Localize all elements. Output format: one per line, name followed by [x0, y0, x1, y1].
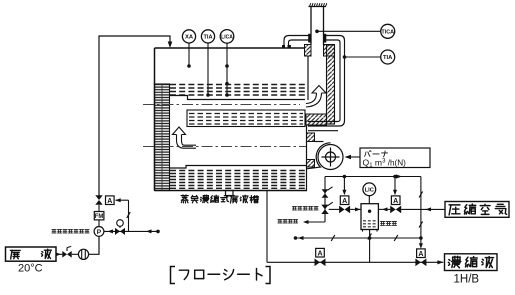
svg-text:20°C: 20°C	[18, 263, 43, 275]
svg-text:FM: FM	[95, 214, 104, 220]
evaporative concentration waste-liquid tank: outer shell	[155, 47, 305, 49]
pump suction piping	[89, 236, 99, 254]
pipe base flanges on roof	[282, 45, 285, 48]
control valve right	[390, 206, 401, 214]
svg-text:1H/B: 1H/B	[454, 274, 480, 286]
node: stack temperature tap	[315, 30, 319, 34]
XA sensor line	[188, 43, 190, 66]
blower / forced draft fan	[307, 142, 344, 170]
pump discharge branch line	[104, 230, 158, 232]
waste liquid supply pump P	[94, 227, 104, 237]
TIA sensor line	[207, 43, 209, 95]
to exhaust arrow	[304, 221, 325, 223]
flow arrow (middle pass turnaround, outlined)	[173, 127, 197, 148]
tank name label (JP strokes)	[181, 195, 258, 203]
tank left refractory wall (brick hatch)	[155, 84, 170, 191]
control valve left	[339, 206, 350, 214]
roof block right of stack	[324, 45, 335, 57]
compressed air box	[445, 202, 509, 218]
valve (lower, w/ lever)	[321, 205, 328, 214]
flange block upper (blower inlet)	[307, 133, 315, 142]
drain nozzle	[226, 191, 234, 196]
valve (upper, w/ lever)	[322, 189, 329, 197]
node: capped branch end	[156, 230, 160, 234]
svg-text:P: P	[97, 229, 102, 236]
strainer	[78, 249, 88, 259]
burner label box	[360, 148, 430, 168]
feed air line through pressure feeder	[329, 208, 340, 210]
instrument LICA	[220, 30, 234, 44]
pipe flange marks on stack	[308, 34, 311, 43]
hand valve (suction)	[62, 251, 71, 258]
pump name (tiny JP)	[52, 230, 89, 234]
roof block left of stack	[305, 45, 312, 57]
inlet arrows from waste box	[57, 253, 63, 255]
signal arrow into A	[116, 199, 129, 201]
steam takeoff vertical	[324, 177, 326, 223]
baffle block under stack duct	[306, 114, 327, 125]
tank liquid level dashes (top band)	[170, 85, 306, 96]
flow meter FM	[94, 212, 104, 220]
stack duct inner left wall	[307, 56, 309, 100]
flow arrow (up into stack, outlined)	[306, 86, 326, 108]
exhaust label (tiny JP)	[278, 219, 298, 222]
feed pipe to tank top	[99, 36, 170, 196]
tank bottom liquid dashes	[170, 171, 306, 189]
signal line to TIA	[345, 56, 381, 58]
svg-text:A: A	[393, 198, 398, 205]
tank right end wall lower	[306, 125, 308, 191]
instrument XA	[182, 30, 195, 43]
lateral line w/ end node	[294, 236, 298, 240]
concentrate box	[445, 254, 498, 271]
inner vessel bottom step	[170, 166, 307, 169]
svg-text:LICA: LICA	[221, 35, 233, 41]
node: pipe temperature tap	[343, 55, 347, 59]
stack top hatch ticks	[310, 3, 327, 6]
upper tube bundle (dashed rect)	[187, 110, 305, 127]
bottom concentrate line	[266, 191, 268, 263]
flow sheet title	[171, 267, 271, 284]
middle flue pass centerline	[143, 146, 306, 148]
concentrate valve right	[415, 259, 426, 267]
tank right wall (diagonal hatch)	[327, 45, 335, 124]
svg-text:A: A	[317, 250, 322, 257]
svg-text:XA: XA	[185, 35, 194, 41]
svg-text:A: A	[418, 251, 423, 258]
instrument TIA (right)	[381, 50, 395, 64]
svg-text:A: A	[107, 198, 112, 205]
re-evaporator label (tiny JP)	[292, 206, 318, 209]
LICA sensor line	[226, 43, 228, 95]
connector FM to pump	[98, 220, 100, 227]
inner vessel top step	[170, 96, 306, 100]
svg-text:TIA: TIA	[203, 35, 212, 41]
signal line elbow down	[128, 200, 130, 231]
waste liquid source box	[6, 247, 57, 261]
control valve (feed)	[95, 195, 102, 205]
svg-text:TIA: TIA	[383, 55, 393, 61]
suction line	[72, 253, 79, 255]
instrument LIC	[363, 183, 376, 196]
recirculation control valve w/ round actuator	[115, 228, 125, 235]
pressure feeder vessel	[361, 204, 378, 230]
svg-text:LIC: LIC	[365, 188, 375, 194]
flange block lower (blower inlet)	[307, 160, 315, 168]
instrument TICA	[381, 24, 395, 38]
vessel discharge down	[369, 230, 371, 263]
pressure feeder label (tiny JP)	[380, 222, 396, 226]
signal drop to left A-box	[343, 177, 345, 193]
upper flue pass centerline	[143, 104, 300, 106]
burner air arrow to blower	[347, 156, 361, 158]
instrument TIA (top)	[201, 30, 214, 43]
svg-text:A: A	[342, 198, 347, 205]
actuator box A (feed valve)	[106, 196, 115, 205]
exhaust stack	[309, 7, 327, 45]
connector valve to FM	[98, 205, 100, 212]
signal line to TICA	[317, 30, 381, 32]
header line (top of network)	[325, 176, 421, 178]
signal drop to right A-box	[394, 177, 396, 193]
flue pipe over stack (double wall)	[284, 36, 345, 131]
svg-text:TICA: TICA	[381, 29, 394, 35]
concentrate valve left w/ A-box	[316, 248, 325, 257]
compressed air drop line	[420, 177, 422, 247]
